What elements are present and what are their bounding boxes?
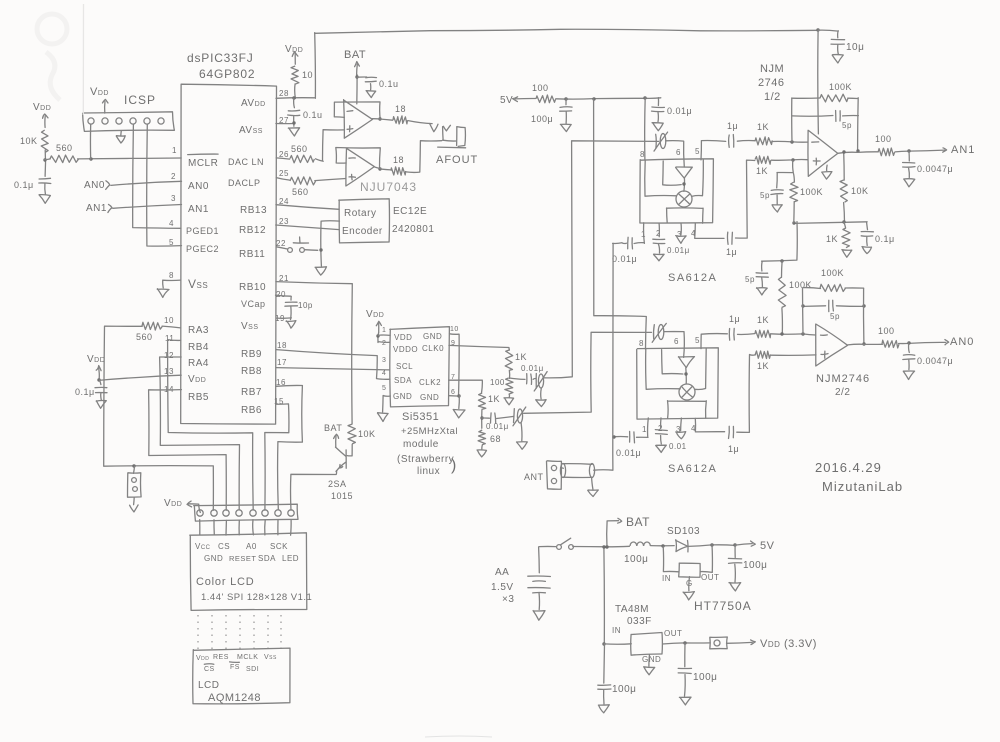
svg-text:0.1μ: 0.1μ	[875, 234, 895, 244]
svg-text:10K: 10K	[851, 186, 869, 196]
svg-text:AN0: AN0	[950, 336, 974, 348]
resistor 100 (AN1)	[875, 134, 895, 156]
resistor 1K (U4a minus)	[755, 122, 772, 145]
resistor 68 (CLK2 shunt)	[478, 430, 501, 445]
capacitor 0.01u (CLK2)	[482, 413, 509, 431]
wire Si5351 GND pin5	[383, 396, 391, 412]
wire Si5351 GND right	[449, 334, 460, 409]
ground (AN0)	[903, 360, 914, 380]
svg-text:AN1: AN1	[188, 204, 209, 215]
svg-text:18: 18	[395, 104, 406, 114]
capacitor 1u (mixer2 out B)	[728, 426, 739, 454]
svg-text:3: 3	[171, 194, 176, 203]
wire	[736, 160, 755, 238]
ground (100u 5V out)	[729, 564, 741, 591]
svg-text:BAT: BAT	[626, 515, 650, 529]
op-amp U2a NJU7043	[344, 100, 373, 139]
wire	[44, 184, 47, 194]
label ICSP	[124, 93, 156, 107]
svg-text:1K: 1K	[826, 234, 838, 244]
svg-text:10p: 10p	[298, 301, 313, 310]
wire LO1	[543, 141, 659, 378]
IC U3 SA612A box	[640, 159, 714, 223]
pin 1 MCLR	[172, 146, 218, 169]
wire MCLR	[45, 157, 182, 160]
pin numbers SA612A-2	[639, 336, 700, 434]
svg-text:100: 100	[875, 134, 892, 144]
label NJM2746 2/2	[816, 373, 870, 398]
capacitor 0.01u (mixer1 vcc)	[652, 98, 693, 116]
svg-text:VSS: VSS	[264, 654, 277, 661]
pin 14 RB5	[164, 385, 209, 403]
label Mizutani Lab	[822, 479, 903, 494]
svg-text:NJM: NJM	[760, 63, 784, 75]
resistor 18 (U2a out)	[372, 104, 407, 124]
pin 18 RB9	[241, 341, 287, 360]
wire 5V to mixer1	[644, 98, 647, 160]
svg-text:6: 6	[674, 337, 679, 346]
svg-text:2: 2	[382, 340, 386, 347]
svg-text:LED: LED	[282, 554, 299, 563]
svg-text:560: 560	[56, 143, 73, 153]
resistor 100K (U4b bias)	[778, 261, 812, 334]
wire	[634, 242, 644, 245]
svg-text:2746: 2746	[758, 77, 784, 89]
svg-text:CLK0: CLK0	[422, 344, 444, 353]
ground (Si5351 pin5)	[378, 413, 389, 422]
wire BAT to opamp	[355, 75, 358, 104]
power VDD symbol (MCLR pullup)	[33, 102, 51, 128]
svg-text:RB11: RB11	[239, 249, 265, 260]
wire encoder common	[319, 221, 339, 266]
svg-text:module: module	[403, 439, 439, 450]
svg-text:6: 6	[676, 148, 681, 157]
svg-text:0.1u: 0.1u	[379, 79, 399, 89]
resistor 1K (bias gnd)	[826, 222, 850, 248]
svg-text:100: 100	[490, 378, 505, 387]
resistor 10K (base)	[348, 424, 376, 444]
ground (TA48M)	[644, 655, 655, 675]
svg-text:560: 560	[292, 187, 309, 197]
svg-text:18: 18	[277, 341, 287, 350]
wire mixer2 pin1	[612, 418, 648, 439]
svg-text:TA48M: TA48M	[615, 604, 649, 615]
capacitor 5p (U4a plus)	[760, 190, 783, 200]
wire VDD to pin13	[97, 375, 181, 381]
pin 26 DACLN	[228, 150, 289, 167]
pin 27 AVSS	[239, 116, 289, 136]
inductor L1 100u	[624, 542, 650, 565]
wire RB9 to SDA	[276, 350, 390, 380]
wire to U4a plus	[771, 158, 807, 161]
svg-text:1015: 1015	[331, 491, 353, 501]
label AN1	[951, 144, 975, 156]
wire feedback U2a	[334, 102, 381, 121]
svg-text:68: 68	[490, 434, 501, 444]
svg-text:Encoder: Encoder	[342, 226, 383, 237]
svg-text:HT7750A: HT7750A	[694, 599, 752, 613]
svg-text:LCD: LCD	[198, 680, 220, 691]
pin 10 RA3	[164, 316, 209, 336]
svg-text:RA3: RA3	[188, 325, 209, 336]
wire mixer2 pin5	[701, 334, 727, 349]
wire RB4 to A0	[168, 340, 254, 510]
wire HT7750 out	[701, 545, 713, 573]
wire RB10	[276, 282, 352, 424]
svg-text:10: 10	[450, 326, 459, 333]
capacitor 0.1u (NJU7043 supply)	[357, 77, 398, 89]
svg-text:1μ: 1μ	[729, 314, 740, 324]
svg-text:NJM2746: NJM2746	[816, 373, 870, 385]
ground (battery)	[533, 611, 545, 621]
wire to U4a minus	[772, 140, 808, 143]
svg-text:Si5351: Si5351	[402, 411, 439, 423]
connector jack sleeve	[457, 127, 466, 147]
resistor 10K (MCLR pullup)	[20, 130, 48, 152]
svg-text:2420801: 2420801	[392, 224, 434, 235]
svg-text:5: 5	[169, 238, 174, 247]
wire Si5351 VDD	[376, 333, 390, 343]
ground (100u 3.3V)	[679, 675, 691, 705]
svg-text:10: 10	[302, 70, 313, 80]
smudge	[37, 4, 84, 115]
IC U7 TA48M033F	[612, 604, 682, 664]
wire VCap	[276, 295, 292, 300]
svg-text:100μ: 100μ	[624, 554, 648, 565]
wire LO2	[524, 332, 652, 413]
pin 4 PGED1	[169, 219, 219, 236]
capacitor 5p (U4b fb)	[801, 300, 865, 321]
pin numbers Si5351 right	[450, 326, 459, 396]
pin 8 VSS	[169, 271, 208, 291]
capacitor 0.1u (chip VDD)	[75, 380, 107, 397]
connector ANT	[547, 461, 562, 489]
svg-text:1: 1	[172, 146, 177, 155]
svg-text:BAT: BAT	[344, 49, 366, 61]
label SA612A (2)	[668, 463, 717, 475]
svg-text:100μ: 100μ	[743, 560, 767, 571]
label LCD pins row2	[204, 554, 299, 563]
resistor 100K (U4a plus)	[790, 174, 823, 223]
resistor 1K (CLK0)	[505, 350, 527, 371]
svg-text:SDI: SDI	[246, 666, 259, 673]
wire collector to LED pin	[291, 471, 337, 511]
svg-text:3: 3	[382, 357, 386, 364]
wire RB13 to encoder	[276, 205, 339, 210]
wire DACLN to buffer	[316, 159, 324, 162]
svg-text:0.1u: 0.1u	[303, 110, 323, 120]
svg-text:18: 18	[393, 155, 404, 165]
wire 5V to mixer2	[594, 99, 647, 349]
ground (100u batt)	[598, 690, 609, 713]
svg-text:100μ: 100μ	[612, 684, 636, 695]
svg-text:VDD: VDD	[394, 333, 412, 342]
svg-text:1μ: 1μ	[726, 247, 737, 257]
ground (5p vref)	[757, 278, 768, 295]
wire CLK0	[449, 345, 510, 350]
svg-text:GND: GND	[393, 392, 412, 401]
svg-text:PGEC2: PGEC2	[186, 244, 219, 254]
svg-text:100: 100	[532, 83, 549, 93]
connector ICSP header	[83, 112, 175, 132]
label HT7750A	[694, 599, 752, 613]
svg-text:8: 8	[639, 339, 644, 348]
svg-text:PGED1: PGED1	[186, 226, 219, 236]
power 5V arrow	[500, 95, 536, 106]
svg-text:RES: RES	[213, 654, 229, 661]
svg-text:5: 5	[695, 147, 700, 156]
svg-text:VDD: VDD	[196, 655, 209, 662]
svg-text:Rotary: Rotary	[344, 208, 376, 219]
wire	[688, 543, 737, 546]
svg-text:0.01: 0.01	[669, 442, 687, 451]
wire fb left	[791, 98, 793, 142]
ground (CLK0 shunt)	[504, 394, 514, 405]
wire fb2 left	[802, 288, 805, 334]
ground (10u)	[832, 45, 843, 63]
svg-text:MCLK: MCLK	[237, 654, 258, 661]
svg-text:0.1μ: 0.1μ	[75, 387, 95, 397]
svg-text:1μ: 1μ	[728, 444, 739, 454]
svg-text:SCL: SCL	[396, 362, 413, 371]
wire LO2 to pin6	[664, 332, 684, 358]
pin 11 RB4	[165, 334, 209, 353]
connector jack tip contact	[430, 124, 438, 132]
ground (bias R)	[842, 250, 852, 258]
resistor 18 (U2b out)	[374, 155, 406, 175]
label AA 1.5V x3	[491, 567, 514, 605]
svg-text:GND: GND	[642, 655, 661, 664]
capacitor 10p (VCap)	[285, 301, 313, 310]
trimmer capacitor VC2	[497, 407, 526, 426]
wire bias bus 1	[792, 203, 867, 225]
wire LCD header to module	[200, 520, 291, 536]
svg-text:8: 8	[640, 150, 645, 159]
svg-text:10K: 10K	[20, 136, 38, 146]
power VDD symbol (ICSP)	[90, 86, 109, 113]
wire U5 internals	[646, 349, 707, 419]
pin numbers Si5351 left	[382, 327, 386, 392]
svg-text:100K: 100K	[800, 187, 823, 197]
svg-text:25: 25	[279, 169, 289, 178]
svg-text:100: 100	[878, 326, 895, 336]
label dsPIC33FJ 64GP802	[187, 51, 255, 81]
wire RB7 to SCK	[276, 385, 302, 509]
oscillator triangle U3	[676, 167, 693, 191]
svg-text:Color LCD: Color LCD	[196, 576, 255, 588]
svg-text:FS: FS	[230, 664, 240, 671]
node AN1 input	[86, 203, 182, 214]
svg-text:RB9: RB9	[241, 349, 262, 360]
svg-text:SA612A: SA612A	[668, 272, 717, 284]
svg-text:DACLP: DACLP	[228, 178, 261, 188]
resistor 100 (CLK0 shunt)	[490, 378, 513, 394]
op-amp U2b NJU7043	[346, 148, 374, 186]
svg-text:4: 4	[169, 219, 174, 228]
svg-text:SDA: SDA	[394, 376, 412, 385]
wire DACLP to buffer	[315, 179, 346, 181]
svg-text:CLK2: CLK2	[419, 378, 441, 387]
capacitor 5p (U4a fb)	[792, 111, 858, 131]
capacitor 0.0047u (AN0)	[903, 343, 953, 366]
svg-text:AN1: AN1	[951, 144, 975, 156]
pin 2 AN0	[171, 172, 209, 192]
svg-text:560: 560	[136, 332, 153, 342]
svg-text:RB8: RB8	[241, 366, 262, 377]
svg-text:0.01μ: 0.01μ	[521, 364, 544, 373]
svg-text:10K: 10K	[358, 429, 376, 439]
wire mixer2 pin4	[695, 418, 724, 432]
ground (mixer1 pin2)	[654, 244, 665, 260]
wire	[737, 140, 754, 143]
wire mixer1 pin1	[622, 223, 644, 244]
wire fb2 right	[862, 288, 865, 345]
pin numbers SA612A-1	[640, 147, 700, 239]
svg-text:64GP802: 64GP802	[199, 67, 255, 81]
svg-text:VCap: VCap	[241, 299, 266, 309]
wire vref link	[762, 222, 798, 263]
resistor 1K (U4b minus)	[755, 315, 771, 338]
wire mixer1 pin5	[701, 141, 726, 160]
wire U2b to jack ring	[406, 141, 442, 173]
ground (5p)	[772, 195, 782, 212]
svg-text:1K: 1K	[757, 315, 769, 325]
svg-text:13: 13	[164, 367, 174, 376]
svg-text:1: 1	[642, 425, 647, 434]
wire AVDD	[276, 84, 315, 100]
svg-text:AA: AA	[495, 567, 509, 578]
svg-text:0.01μ: 0.01μ	[486, 422, 509, 431]
svg-text:GND: GND	[204, 554, 223, 563]
svg-text:1: 1	[382, 327, 386, 334]
label SA612A (1)	[668, 272, 717, 284]
capacitor 0.0047u (AN1)	[903, 151, 954, 174]
svg-text:100μ: 100μ	[531, 114, 553, 124]
ground (encoder)	[315, 267, 326, 275]
capacitor 100u (5V out)	[728, 545, 767, 571]
pin 17 RB8	[241, 358, 287, 377]
ground (VC2)	[517, 423, 528, 450]
pin 20 VCap	[241, 290, 286, 309]
op-amp U4b NJM2746	[816, 324, 848, 366]
ground (mixer2 pin2)	[656, 436, 667, 453]
svg-text:OUT: OUT	[664, 629, 682, 638]
svg-text:(Strawberry: (Strawberry	[397, 454, 454, 465]
svg-text:0.01μ: 0.01μ	[616, 448, 641, 458]
capacitor 100u (5V)	[531, 99, 572, 124]
label VDD 3.3V	[760, 638, 817, 650]
wire CLK2	[449, 380, 483, 393]
svg-text:0.0047μ: 0.0047μ	[917, 164, 953, 174]
svg-text:RB5: RB5	[188, 392, 209, 403]
component rotary encoder box	[339, 199, 390, 243]
svg-text:28: 28	[279, 89, 289, 98]
oscillator triangle U5	[678, 357, 694, 384]
wire batt to regulator	[602, 545, 605, 645]
wire dashed bus to AQM1248	[198, 615, 281, 649]
resistor 10K (bias)	[840, 150, 869, 202]
mixer symbol U3	[676, 191, 692, 207]
wire U4a out	[838, 152, 878, 154]
wire ICSP PGEC2	[147, 125, 182, 246]
capacitor 0.01u (mixer2 pin2)	[655, 418, 686, 451]
ferrite bead FB1	[710, 637, 728, 649]
svg-text:2: 2	[656, 229, 661, 238]
IC U5 SA612A box	[637, 348, 719, 419]
ground (chip VDD)	[96, 393, 106, 408]
wire to U4b plus	[771, 354, 816, 356]
resistor 100 (AN0)	[878, 326, 899, 348]
svg-text:100K: 100K	[789, 280, 812, 290]
svg-text:1K: 1K	[756, 166, 768, 176]
wire to U4b minus	[771, 332, 816, 335]
trimmer capacitor VC4 (LO2)	[652, 323, 666, 342]
svg-text:DAC LN: DAC LN	[228, 157, 264, 167]
svg-text:ICSP: ICSP	[124, 93, 156, 107]
svg-text:AN0: AN0	[188, 181, 209, 192]
ground (68)	[477, 445, 487, 457]
svg-text:5: 5	[695, 336, 700, 345]
power BAT symbol (backlight)	[324, 423, 342, 447]
capacitor 0.01u (RF in 2)	[616, 431, 648, 458]
label NJU7043	[360, 180, 417, 194]
resistor 560 (DACLP)	[276, 177, 315, 197]
wire VDD out	[727, 640, 756, 645]
svg-text:100K: 100K	[829, 82, 852, 92]
svg-text:8: 8	[169, 271, 174, 280]
svg-text:RA4: RA4	[188, 358, 209, 369]
ground (0.1u NJU)	[366, 84, 376, 98]
svg-text:RESET: RESET	[229, 554, 257, 563]
svg-text:17: 17	[277, 358, 287, 367]
switch SW1	[539, 538, 573, 549]
svg-text:5p: 5p	[745, 275, 755, 284]
label LCD pins row1	[195, 542, 288, 551]
capacitor 0.1u (AVDD)	[288, 98, 323, 120]
svg-text:BAT: BAT	[324, 423, 342, 433]
label LCD AQM1248	[198, 680, 261, 704]
trimmer capacitor VC3 (LO1)	[654, 132, 668, 151]
svg-text:GND: GND	[423, 332, 442, 341]
pin 3 AN1	[171, 194, 209, 215]
ground (ICSP)	[116, 131, 125, 143]
svg-text:RB13: RB13	[240, 205, 267, 216]
ground (100u 5V)	[560, 112, 571, 132]
wire	[480, 410, 483, 428]
label Si5351 pins	[393, 332, 444, 402]
svg-text:VDD (3.3V): VDD (3.3V)	[760, 638, 817, 650]
svg-text:AQM1248: AQM1248	[208, 692, 261, 704]
wire reg out	[663, 641, 711, 644]
label AQM pins	[196, 654, 277, 673]
wire	[43, 150, 46, 176]
ground (0.01u)	[652, 112, 663, 131]
svg-text:0.1μ: 0.1μ	[14, 180, 34, 190]
label EC12E 2420801	[392, 206, 434, 235]
wire VSS pin8	[163, 280, 181, 288]
svg-text:IN: IN	[662, 574, 671, 583]
wire RF bus	[613, 243, 622, 438]
svg-text:2: 2	[171, 172, 176, 181]
label NJM 2746 1/2	[758, 63, 784, 103]
capacitor 100u (3.3V)	[678, 643, 717, 683]
resistor 560 (RA3)	[136, 322, 181, 342]
power BAT arrow	[607, 515, 650, 547]
power BAT symbol (NJU7043)	[344, 49, 366, 75]
pin 13 VDD	[164, 367, 206, 385]
svg-text:RB7: RB7	[241, 387, 262, 398]
ground	[39, 195, 50, 204]
